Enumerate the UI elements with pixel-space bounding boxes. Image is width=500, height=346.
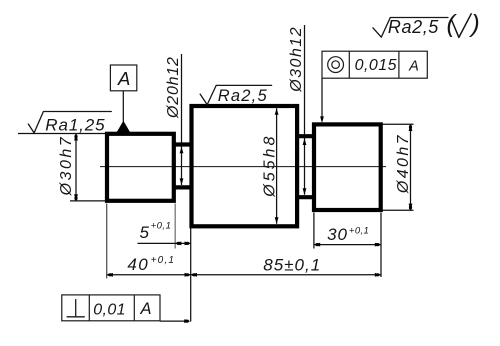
svg-text:A: A xyxy=(117,68,130,89)
svg-text:30: 30 xyxy=(327,225,348,244)
svg-text:+0,1: +0,1 xyxy=(349,226,369,237)
svg-text:Ra1,25: Ra1,25 xyxy=(45,115,105,134)
svg-text:0,01: 0,01 xyxy=(93,301,126,318)
svg-text:+0,1: +0,1 xyxy=(151,221,172,232)
svg-text:A: A xyxy=(139,300,151,318)
svg-text:Ø20h12: Ø20h12 xyxy=(165,56,182,119)
svg-text:Ra2,5: Ra2,5 xyxy=(218,87,268,105)
svg-text:Ø40h7: Ø40h7 xyxy=(395,133,412,194)
svg-text:85±0,1: 85±0,1 xyxy=(263,255,321,274)
svg-text:Ø30h7: Ø30h7 xyxy=(58,135,75,197)
svg-text:A: A xyxy=(408,58,419,74)
svg-text:5: 5 xyxy=(140,223,150,242)
svg-text:0,015: 0,015 xyxy=(355,57,397,74)
svg-text:Ø55h8: Ø55h8 xyxy=(262,134,279,198)
svg-text:+0,1: +0,1 xyxy=(151,255,176,266)
svg-text:Ø30h12: Ø30h12 xyxy=(288,26,305,93)
svg-text:40: 40 xyxy=(127,255,149,274)
svg-text:Ra2,5: Ra2,5 xyxy=(388,17,439,37)
